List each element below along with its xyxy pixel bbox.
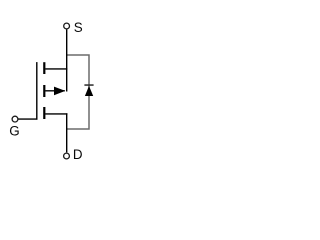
terminal S (circle)	[64, 23, 70, 29]
terminal D (circle)	[64, 153, 70, 159]
wire: top stub (drain side of channel)	[45, 68, 67, 70]
channel segment (top)	[43, 62, 45, 74]
gate line G	[36, 62, 38, 120]
body arrow (points toward source wire)	[54, 87, 65, 96]
diode D1 cathode bar	[84, 84, 93, 86]
svg-text:S: S	[74, 20, 83, 35]
wire: drain terminal vertical	[66, 113, 68, 152]
terminal G (circle)	[12, 116, 18, 122]
wire: middle stub (body connection)	[45, 90, 65, 92]
svg-text:G: G	[9, 123, 19, 138]
wire: source terminal down through top stub to body stub (vertical at x=66.7)	[66, 30, 68, 92]
wire: bottom stub (source side of channel)	[45, 113, 67, 115]
diode D1 anode triangle	[85, 86, 93, 96]
channel segment (middle)	[43, 85, 45, 97]
body-diode branch wire (gray)	[67, 55, 89, 129]
wire: gate terminal horizontal	[18, 118, 38, 120]
svg-text:D: D	[73, 147, 83, 162]
channel segment (bottom)	[43, 107, 45, 119]
